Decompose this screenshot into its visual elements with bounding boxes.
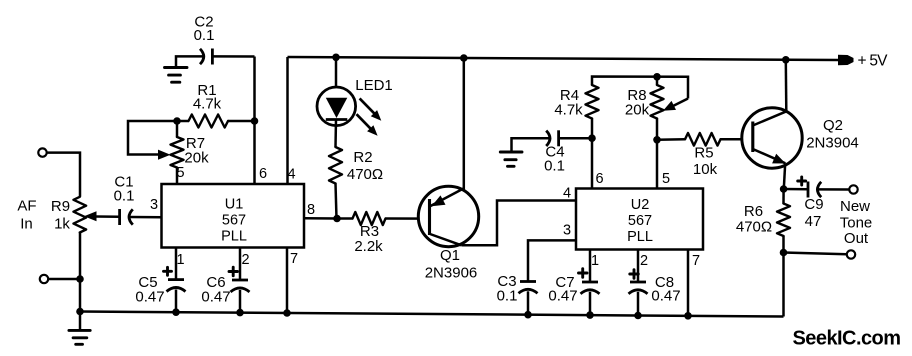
resistor R1 4.7k bbox=[177, 120, 189, 123]
svg-text:3: 3 bbox=[150, 197, 158, 213]
junction dots bottom rail bbox=[76, 308, 84, 316]
svg-text:2N3904: 2N3904 bbox=[806, 135, 859, 152]
R7 wiper loop wire bbox=[128, 121, 177, 155]
svg-text:0.1: 0.1 bbox=[194, 27, 215, 44]
potentiometer R9 bbox=[74, 197, 87, 233]
svg-text:U1: U1 bbox=[225, 197, 244, 213]
wire to lower terminal bbox=[784, 253, 847, 255]
wire bbox=[48, 278, 80, 281]
capacitor C2 bbox=[200, 49, 204, 64]
svg-text:U2: U2 bbox=[631, 197, 650, 213]
capacitor C6 bbox=[239, 248, 242, 281]
svg-text:6: 6 bbox=[259, 166, 267, 182]
svg-text:0.1: 0.1 bbox=[497, 288, 518, 305]
resistor R4 4.7k bbox=[586, 85, 599, 119]
wire bbox=[47, 153, 80, 197]
capacitor C1 bbox=[118, 209, 121, 225]
junction R9 bottom terminal bbox=[76, 275, 84, 283]
svg-text:SeekIC.com: SeekIC.com bbox=[793, 328, 902, 350]
svg-text:R9: R9 bbox=[51, 198, 70, 215]
junction R6 bottom bbox=[780, 249, 788, 257]
terminal output bottom bbox=[847, 250, 855, 258]
svg-text:7: 7 bbox=[692, 253, 700, 269]
wire bbox=[559, 137, 592, 140]
svg-text:4.7k: 4.7k bbox=[554, 102, 583, 119]
potentiometer R7 20k bbox=[176, 121, 179, 137]
svg-text:7: 7 bbox=[290, 251, 298, 267]
+5V arrowhead bbox=[838, 55, 854, 65]
capacitor C8 bbox=[630, 281, 646, 284]
potentiometer R8 20k bbox=[656, 77, 659, 85]
svg-text:2N3906: 2N3906 bbox=[425, 265, 478, 282]
terminal input top bbox=[38, 148, 46, 156]
svg-text:0.1: 0.1 bbox=[544, 158, 565, 175]
svg-text:LED1: LED1 bbox=[355, 77, 393, 94]
svg-text:3: 3 bbox=[563, 223, 571, 239]
svg-text:1k: 1k bbox=[54, 216, 70, 233]
svg-text:PLL: PLL bbox=[627, 229, 653, 245]
resistor R3 2.2k bbox=[337, 217, 353, 220]
Q1 collector wire to U2 pin4 bbox=[462, 201, 577, 246]
svg-text:Tone: Tone bbox=[840, 215, 873, 232]
LED light arrow 2 bbox=[357, 114, 373, 130]
svg-text:1: 1 bbox=[591, 253, 599, 269]
bottom ground rail bbox=[80, 312, 784, 317]
svg-text:4.7k: 4.7k bbox=[193, 96, 222, 113]
svg-text:Q2: Q2 bbox=[823, 117, 843, 134]
svg-text:0.47: 0.47 bbox=[651, 288, 680, 305]
svg-text:4: 4 bbox=[287, 167, 295, 183]
svg-text:1: 1 bbox=[176, 252, 184, 268]
ground C4 bbox=[512, 138, 550, 152]
junction dots R1 bbox=[173, 117, 181, 125]
svg-text:Q1: Q1 bbox=[440, 247, 460, 264]
capacitor C4 bbox=[546, 131, 550, 146]
svg-text:Out: Out bbox=[844, 230, 869, 247]
capacitor C7 bbox=[582, 281, 598, 284]
svg-text:47: 47 bbox=[805, 213, 822, 230]
svg-text:470Ω: 470Ω bbox=[347, 166, 383, 183]
svg-text:0.1: 0.1 bbox=[114, 188, 135, 205]
svg-text:In: In bbox=[20, 216, 33, 233]
resistor R5 10k bbox=[657, 138, 685, 141]
svg-text:0.47: 0.47 bbox=[201, 289, 230, 306]
ground bottom left bbox=[79, 312, 82, 331]
op IC U2 567 PLL bbox=[576, 189, 703, 250]
svg-text:5: 5 bbox=[662, 171, 670, 187]
op IC U1 567 PLL bbox=[162, 184, 305, 248]
svg-text:4: 4 bbox=[563, 186, 571, 202]
capacitor C5 bbox=[175, 248, 178, 280]
LED light arrow 1 bbox=[360, 98, 376, 115]
pin 7 wire U1 bbox=[286, 248, 289, 315]
svg-text:567: 567 bbox=[222, 213, 246, 229]
resistor R2 470 bbox=[329, 147, 342, 184]
svg-text:10k: 10k bbox=[693, 161, 718, 178]
junction R8 top bbox=[653, 73, 661, 81]
junction C4/R4/pin6 bbox=[588, 134, 596, 142]
transistor Q1 2N3906 bbox=[418, 186, 478, 246]
transistor Q2 2N3904 bbox=[742, 108, 802, 168]
svg-text:PLL: PLL bbox=[221, 229, 247, 245]
terminal output top bbox=[849, 185, 857, 193]
capacitor C3 bbox=[520, 280, 536, 283]
svg-text:470Ω: 470Ω bbox=[736, 219, 772, 236]
svg-text:20k: 20k bbox=[625, 102, 650, 119]
wire bbox=[96, 215, 120, 218]
svg-text:0.47: 0.47 bbox=[548, 288, 577, 305]
svg-text:2: 2 bbox=[640, 253, 648, 269]
junction pin8/R2 bbox=[333, 215, 341, 223]
svg-text:+ 5V: + 5V bbox=[858, 53, 889, 70]
svg-text:6: 6 bbox=[595, 171, 603, 187]
LED1 bbox=[335, 57, 338, 99]
junction R5/pin5 bbox=[653, 136, 661, 144]
svg-text:R6: R6 bbox=[744, 203, 763, 220]
svg-text:R2: R2 bbox=[353, 149, 372, 166]
pin 7 wire U2 bbox=[687, 250, 690, 317]
svg-text:0.47: 0.47 bbox=[135, 289, 164, 306]
junction dots top rail bbox=[332, 54, 340, 62]
capacitor C9 bbox=[784, 188, 808, 191]
wire pin6 vertical bbox=[253, 57, 256, 185]
svg-text:567: 567 bbox=[628, 213, 652, 229]
resistor R6 470 bbox=[782, 189, 785, 204]
svg-text:C9: C9 bbox=[804, 196, 823, 213]
pin 3 wire U2 bbox=[528, 240, 576, 281]
terminal input bottom bbox=[40, 275, 48, 283]
wire pin3 bbox=[130, 216, 162, 219]
R4/R8 sub rail bbox=[592, 77, 688, 99]
R9 wiper arrow bbox=[84, 211, 97, 221]
R8 wiper arrow bbox=[668, 99, 688, 109]
svg-text:20k: 20k bbox=[184, 150, 209, 167]
pin 2 wire U2 bbox=[637, 250, 640, 283]
wire bbox=[79, 233, 82, 314]
ground C2 bbox=[176, 56, 203, 67]
svg-text:AF: AF bbox=[17, 198, 36, 215]
svg-text:8: 8 bbox=[307, 202, 315, 218]
svg-text:2: 2 bbox=[241, 252, 249, 268]
svg-text:R5: R5 bbox=[694, 145, 713, 162]
pin 1 wire U2 bbox=[589, 250, 592, 283]
junction Q2 emitter bbox=[780, 185, 788, 193]
R7 wiper arrow bbox=[158, 150, 171, 160]
top rail bbox=[288, 57, 839, 60]
pin 8 wire bbox=[304, 217, 337, 220]
wire bbox=[212, 55, 254, 58]
svg-text:New: New bbox=[840, 198, 870, 215]
svg-text:2.2k: 2.2k bbox=[354, 238, 383, 255]
pin 4 wire bbox=[286, 57, 289, 184]
